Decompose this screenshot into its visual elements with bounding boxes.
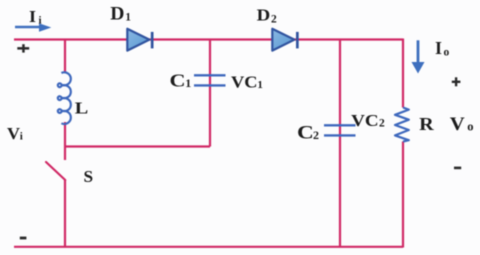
svg-text:C: C	[297, 123, 314, 143]
capacitor C1 top plate	[194, 74, 226, 76]
svg-text:1: 1	[185, 76, 191, 90]
svg-text:D: D	[257, 5, 271, 24]
svg-text:I: I	[435, 38, 442, 58]
svg-text:2: 2	[379, 118, 385, 130]
minus sign output side	[454, 167, 461, 170]
svg-text:o: o	[467, 120, 473, 134]
svg-text:2: 2	[271, 13, 277, 25]
svg-text:D: D	[110, 5, 124, 25]
svg-text:R: R	[419, 114, 435, 134]
svg-text:i: i	[20, 131, 23, 143]
wire bottom return rail	[14, 246, 403, 248]
minus sign input side	[20, 237, 27, 240]
svg-text:1: 1	[125, 12, 131, 24]
svg-text:C: C	[170, 71, 186, 91]
diode D1 cathode bar	[151, 32, 154, 49]
svg-text:VC: VC	[351, 111, 379, 130]
wire middle horizontal from node A to C1 bottom	[64, 145, 210, 147]
wire resistor bottom to bottom rail	[402, 142, 404, 248]
capacitor C2 top plate	[324, 124, 356, 126]
wire left branch from top rail down to inductor	[64, 40, 66, 74]
svg-text:1: 1	[257, 79, 263, 91]
capacitor C1 bottom plate	[194, 84, 226, 86]
diode D2 cathode bar	[296, 32, 299, 49]
svg-text:L: L	[75, 98, 89, 117]
plus sign input side	[17, 44, 29, 52]
svg-text:V: V	[450, 115, 466, 135]
diode D2 triangle	[272, 29, 294, 51]
diode D1 triangle	[127, 29, 149, 51]
wire right vertical from top corner to resistor	[402, 39, 404, 108]
wire switch lower segment to bottom rail	[64, 180, 66, 248]
svg-text:2: 2	[313, 128, 319, 142]
wire C1 vertical branch	[209, 40, 211, 147]
svg-text:S: S	[84, 167, 94, 186]
wire C2 vertical branch	[339, 40, 341, 248]
wire inductor bottom to switch top contact	[64, 122, 66, 160]
wire top rail from input to output corner	[14, 38, 403, 40]
svg-text:I: I	[29, 7, 36, 26]
current arrow Ii	[15, 23, 51, 32]
plus sign output side	[452, 77, 461, 86]
resistor R zigzag	[395, 108, 409, 142]
current arrow Io	[412, 40, 425, 73]
svg-text:o: o	[444, 47, 450, 59]
inductor L coil	[58, 72, 71, 124]
svg-text:V: V	[7, 124, 20, 143]
switch S blade	[46, 162, 65, 180]
svg-text:i: i	[39, 15, 42, 27]
capacitor C2 bottom plate	[324, 134, 356, 136]
svg-text:VC: VC	[231, 73, 258, 92]
